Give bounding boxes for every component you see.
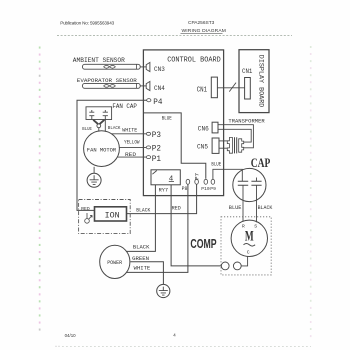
svg-text:CONTROL BOARD: CONTROL BOARD — [167, 57, 221, 65]
svg-text:P10: P10 — [201, 186, 210, 192]
svg-text:BLUE: BLUE — [82, 126, 92, 132]
svg-text:BLUE: BLUE — [162, 115, 172, 121]
svg-text:P2: P2 — [152, 145, 161, 154]
display board outline — [239, 50, 269, 113]
connector CN6 — [212, 122, 218, 133]
fan capacitor plates left — [89, 110, 94, 120]
wire RY7 pin1 to power (black) — [126, 185, 155, 252]
connector CN1 (display board) — [245, 78, 251, 100]
svg-text:WIRING DIAGRAM: WIRING DIAGRAM — [182, 28, 227, 34]
svg-text:FAN CAP: FAN CAP — [112, 103, 137, 110]
terminal P9 — [211, 179, 215, 184]
svg-text:04/10: 04/10 — [65, 333, 77, 338]
footer dashed rule — [62, 345, 311, 347]
svg-text:P9: P9 — [210, 186, 216, 192]
svg-text:C: C — [247, 249, 250, 255]
run capacitor leads — [243, 178, 257, 202]
connector CN3 — [146, 62, 150, 71]
relay RY7 pin mark — [152, 171, 156, 175]
svg-text:BLACK: BLACK — [108, 125, 121, 131]
svg-text:RED: RED — [81, 206, 90, 212]
svg-text:YELLOW: YELLOW — [124, 139, 140, 145]
ION generator box — [95, 207, 127, 221]
svg-text:WHITE: WHITE — [134, 266, 151, 272]
svg-text:P7: P7 — [193, 173, 200, 180]
transformer T1 primary winding — [227, 138, 232, 154]
svg-text:CN1: CN1 — [197, 86, 207, 94]
wire P4 to ION (left run) — [77, 100, 147, 210]
wire evaporator sensor to CN4 — [140, 85, 146, 87]
svg-text:Publication No: 5995563943: Publication No: 5995563943 — [60, 21, 114, 26]
svg-text:RY7: RY7 — [159, 187, 169, 193]
overload protector OL — [221, 262, 229, 270]
svg-text:ION: ION — [105, 211, 120, 221]
ambient sensor twisted pair — [104, 65, 116, 68]
wire CN6 to transformer secondary (outer) — [218, 125, 253, 148]
compressor dashed enclosure — [221, 217, 271, 275]
svg-text:P1: P1 — [152, 155, 161, 164]
wire power to green ground — [131, 262, 164, 285]
evaporator sensor body — [83, 83, 141, 88]
terminal P3 — [146, 132, 150, 135]
wire CN5 to transformer primary (lower) — [219, 147, 227, 149]
fan cap V junction — [93, 120, 104, 125]
wire fan motor YELLOW to P2 — [120, 146, 147, 148]
terminal P1 — [146, 156, 150, 159]
svg-text:WHITE: WHITE — [122, 128, 137, 134]
wire fan motor WHITE to P3 — [112, 133, 146, 135]
svg-text:CN3: CN3 — [154, 66, 165, 73]
ambient sensor body — [83, 64, 141, 69]
svg-text:COMP: COMP — [190, 236, 216, 251]
svg-text:P8: P8 — [182, 186, 188, 192]
svg-text:CN5: CN5 — [197, 144, 208, 151]
wire P8 to power (white) — [127, 184, 188, 272]
svg-text:FAN MOTOR: FAN MOTOR — [87, 146, 117, 153]
fan motor B1 — [84, 131, 120, 167]
transformer T1 secondary winding — [239, 139, 244, 152]
fan capacitor plates right — [103, 110, 108, 132]
svg-text:CN6: CN6 — [198, 125, 209, 132]
header dashed rule — [57, 35, 292, 37]
fan cap junction node — [97, 124, 101, 128]
svg-text:POWER: POWER — [107, 259, 123, 266]
wire cap junction to fan motor — [98, 128, 100, 132]
wire P9 to run capacitor — [213, 169, 242, 181]
terminal P8 — [186, 179, 190, 184]
ground (fan motor) — [87, 173, 101, 187]
terminal P2 — [146, 146, 150, 149]
ionizer electrode — [85, 219, 90, 224]
svg-text:CN1: CN1 — [242, 68, 253, 75]
run capacitor section 1 plates — [238, 181, 248, 185]
wire RY7 pin4 to overload (red) — [171, 185, 221, 266]
svg-text:RED: RED — [125, 152, 136, 158]
svg-text:RED: RED — [172, 205, 181, 211]
svg-text:BLUE: BLUE — [211, 161, 221, 167]
wire fan motor RED to P1 — [118, 156, 147, 158]
control board U1 outline — [143, 50, 223, 196]
terminal P4 — [147, 99, 151, 102]
svg-text:DISPLAY BOARD: DISPLAY BOARD — [257, 55, 265, 108]
wire CN6 to transformer secondary (inner) — [218, 129, 251, 142]
terminal P10 — [204, 179, 208, 184]
svg-text:4: 4 — [173, 332, 176, 337]
connector CN1 (control board) — [211, 77, 217, 98]
run capacitor section 2 plates — [251, 181, 261, 185]
transformer T1 core — [235, 137, 237, 153]
ground (power green) — [157, 284, 170, 297]
compressor motor body — [231, 220, 267, 256]
wire P7 to ION (black) — [127, 184, 197, 213]
wire overload to compressor C — [241, 256, 247, 266]
wire blue board edge to P10 — [144, 113, 206, 179]
svg-text:CPA256ST3: CPA256ST3 — [188, 20, 215, 26]
connector CN5 — [212, 138, 219, 153]
wire CAP to compressor R (blue) — [242, 201, 244, 221]
svg-text:TRANSFORMER: TRANSFORMER — [228, 118, 265, 125]
wire CN5 to transformer primary (upper) — [219, 140, 227, 142]
terminal P7 — [195, 179, 199, 184]
svg-text:S: S — [254, 224, 257, 230]
svg-text:M: M — [245, 229, 254, 245]
connector CN4 — [146, 81, 150, 90]
wire fan motor to ground — [93, 167, 95, 174]
wire CN1 to display board — [217, 87, 244, 89]
svg-text:GREEN: GREEN — [132, 256, 149, 262]
svg-text:BLACK: BLACK — [133, 244, 150, 250]
svg-text:BLACK: BLACK — [136, 207, 150, 213]
svg-text:CN4: CN4 — [154, 85, 165, 92]
evaporator sensor twisted pair — [104, 85, 116, 88]
multi-wire slash — [229, 83, 236, 92]
relay RY7 box — [151, 170, 180, 185]
power supply circle — [100, 245, 130, 278]
svg-text:AMBIENT SENSOR: AMBIENT SENSOR — [73, 57, 125, 64]
run capacitor body — [233, 168, 266, 201]
wire ambient sensor to CN3 — [140, 66, 146, 68]
svg-text:P4: P4 — [153, 98, 162, 107]
svg-text:4: 4 — [169, 175, 174, 183]
svg-text:BLACK: BLACK — [258, 205, 274, 211]
svg-text:P3: P3 — [152, 131, 161, 140]
wire CAP to compressor S (black) — [256, 201, 258, 222]
fan capacitor box — [86, 107, 112, 120]
svg-text:CAP: CAP — [251, 156, 271, 170]
ION dashed enclosure — [79, 200, 131, 234]
svg-text:BLUE: BLUE — [229, 205, 242, 211]
